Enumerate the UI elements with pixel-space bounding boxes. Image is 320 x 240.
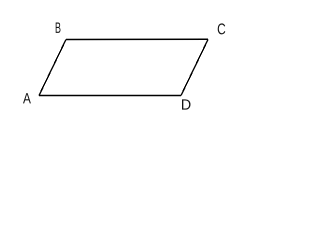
vertex label A (23, 93, 31, 103)
side AB (39, 40, 66, 96)
side CD (181, 40, 208, 96)
side DA (39, 95, 181, 97)
vertex label C (218, 23, 226, 34)
vertex label B (56, 23, 61, 33)
vertex label D (182, 99, 191, 109)
side BC (66, 38, 208, 40)
